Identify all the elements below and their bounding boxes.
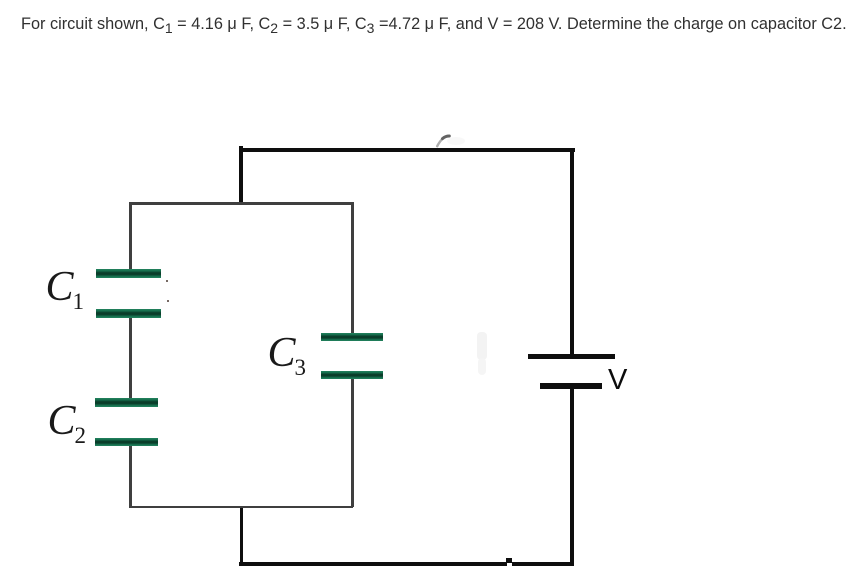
wire: top-left vertical connector (239, 146, 243, 204)
capacitor C2 top plate (95, 398, 158, 407)
faint smudge between C3 and battery (477, 332, 487, 360)
capacitor C1 bottom plate (96, 309, 161, 318)
problem statement text (21, 15, 847, 34)
inner rectangle top edge (129, 202, 353, 205)
pen mark artifact above top wire (430, 128, 470, 150)
battery V short plate (540, 383, 602, 389)
wire: bottom-left vertical connector (240, 506, 244, 566)
capacitor C3 top plate (321, 333, 383, 341)
capacitor C2 bottom plate (95, 438, 158, 447)
wire: outer right vertical upper segment (570, 148, 574, 354)
battery V long plate (528, 354, 615, 360)
wire: left branch between C1 and C2 (129, 317, 132, 398)
wire: outer top horizontal (239, 148, 575, 152)
wire: right branch lower (C3 to bottom) (351, 379, 354, 507)
inner rectangle bottom edge (129, 506, 353, 509)
wire: right branch upper (to C3) (351, 202, 354, 333)
capacitor C3 bottom plate (321, 371, 383, 379)
wire: left branch lower (C2 to bottom) (129, 446, 132, 507)
label V (608, 364, 627, 397)
capacitor C1 top plate (96, 269, 161, 278)
wire: left branch upper (to C1) (129, 202, 132, 269)
wire: outer bottom horizontal (239, 562, 574, 566)
wire: outer right vertical lower segment (570, 388, 574, 566)
label C1 (46, 263, 86, 311)
dot artifact near C1 lower (167, 300, 170, 303)
label C3 (268, 329, 308, 377)
notch artifact on bottom wire (507, 562, 513, 566)
dot artifact near C1 upper (166, 280, 169, 283)
label C2 (48, 397, 88, 445)
